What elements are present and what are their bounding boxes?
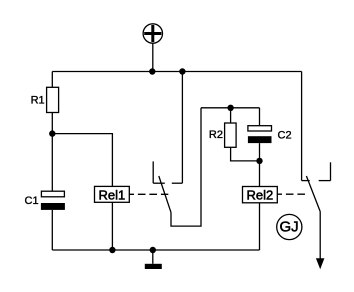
- wire power to top rail: [152, 43, 154, 71]
- svg-text:Rel1: Rel1: [99, 188, 126, 203]
- node junction rail/switch1: [179, 68, 185, 74]
- wire down to R2: [230, 108, 232, 123]
- resistor R2: [225, 123, 237, 147]
- svg-text:C2: C2: [278, 130, 292, 142]
- indicator GJ: [277, 214, 302, 239]
- dashed link Rel2 to contact K2: [277, 193, 306, 195]
- wire to ground: [152, 250, 154, 264]
- wire Rel2 to bottom rail: [259, 203, 261, 250]
- wire rail down to contact K2: [301, 72, 303, 181]
- svg-text:Rel2: Rel2: [247, 188, 274, 203]
- power supply + terminal: [143, 24, 162, 43]
- node junction Rel1/bottom rail: [109, 247, 115, 253]
- node junction R2 top: [227, 105, 233, 111]
- node junction R2/C2 bottom: [256, 158, 262, 164]
- wire R2 bottom: [231, 147, 260, 161]
- wire rail down to R1: [51, 72, 53, 88]
- svg-text:GJ: GJ: [280, 219, 299, 236]
- svg-text:C1: C1: [25, 195, 39, 207]
- relay coil Rel2: [243, 187, 278, 203]
- capacitor C1: [41, 191, 65, 210]
- wire Rel1 to bottom rail: [111, 202, 113, 250]
- output arrow: [316, 258, 325, 269]
- wire contact K2 to output arrow: [319, 212, 321, 260]
- node junction power/rail: [149, 68, 155, 74]
- svg-text:R2: R2: [209, 129, 223, 141]
- wire R2/C2 top bus: [201, 107, 260, 109]
- svg-text:R1: R1: [31, 95, 45, 107]
- ground: [145, 264, 162, 269]
- node junction ground/bottom rail: [150, 247, 156, 253]
- wire C2 to Rel2: [259, 143, 261, 186]
- wire C1 to bottom rail: [51, 210, 53, 250]
- wire down to C2: [259, 108, 261, 126]
- relay coil Rel1: [95, 186, 130, 202]
- wire contact K1 output to R2/C2: [171, 108, 201, 226]
- wire rail down to contact K1: [181, 72, 183, 184]
- wire bottom rail: [52, 249, 259, 251]
- wire branch to Rel1: [52, 134, 112, 187]
- contact K2 (relay switch 2): [302, 162, 331, 211]
- contact K1 (relay switch 1): [153, 161, 182, 212]
- node A junction: [49, 130, 55, 136]
- wire top rail: [52, 71, 301, 73]
- wire R1 to C1: [51, 113, 53, 192]
- dashed link Rel1 to contact K1: [129, 193, 168, 195]
- capacitor C2: [248, 126, 272, 143]
- resistor R1: [47, 87, 59, 112]
